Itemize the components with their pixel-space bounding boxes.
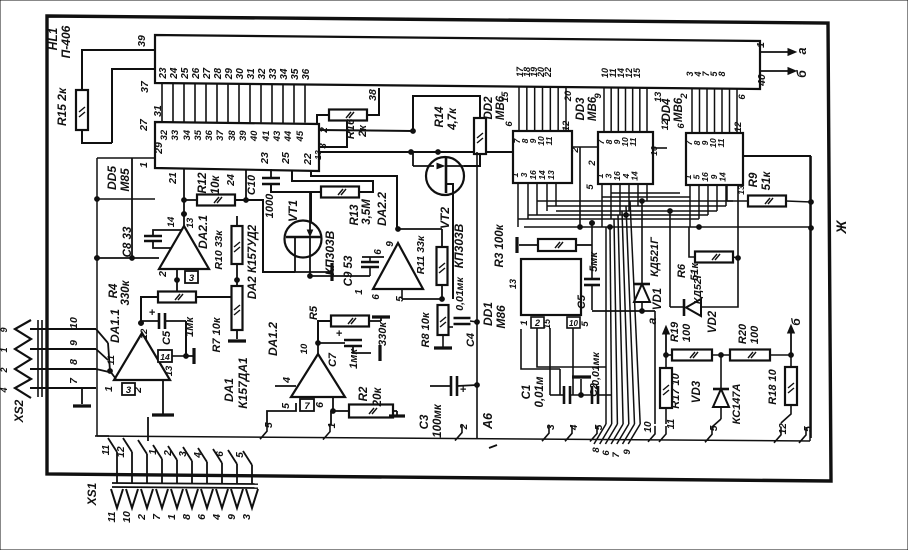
wire R5 left [318,321,331,343]
svg-text:DA2 К157УД2: DA2 К157УД2 [247,224,259,299]
svg-text:5: 5 [709,425,720,431]
wire 5mk top [590,221,595,279]
svg-text:1: 1 [519,320,530,325]
svg-text:HL1: HL1 [46,27,60,50]
capacitor C2 [588,352,602,404]
svg-text:10: 10 [569,319,578,328]
label A6 [481,412,497,448]
label DD5 M85 [105,166,132,192]
svg-text:КД521Г: КД521Г [649,236,661,277]
svg-text:29: 29 [224,68,235,81]
svg-text:R2: R2 [358,386,370,401]
capacitor C9 [343,255,379,286]
svg-text:9: 9 [0,327,9,332]
svg-text:20: 20 [563,90,574,102]
diode VD2 [684,271,719,333]
R5 right up [0,0,1,1]
DD4 inner bottom pins [683,172,727,182]
svg-text:1мк: 1мк [348,348,360,369]
DD2 side labels [500,90,574,131]
board outline left [95,158,100,436]
svg-text:DA1.2: DA1.2 [266,322,280,356]
svg-text:0,01м: 0,01м [534,376,546,407]
display pin numbers DD3 group [600,67,642,78]
svg-text:30: 30 [235,68,246,80]
svg-text:R15 2к: R15 2к [55,87,69,126]
DA1.1 gnd bar [152,380,174,415]
svg-text:4: 4 [211,514,223,521]
bus harness lines [518,193,811,229]
resistor R17 [660,368,682,409]
svg-text:37: 37 [139,80,151,93]
wire DD2-DD3 [572,146,598,148]
resistor R11 [415,235,448,285]
label DD5 pin2 [319,127,330,134]
svg-text:R4: R4 [108,283,120,298]
svg-text:+: + [336,328,343,340]
DD5 top pin numbers 32-45 [159,129,306,142]
svg-text:13: 13 [185,217,196,228]
svg-text:11: 11 [716,138,726,147]
svg-text:24: 24 [169,67,180,80]
bus vertical drops [606,201,640,424]
svg-text:10: 10 [299,343,310,354]
DD4 inner top pins [684,138,726,148]
DD1 pin boxes [508,279,591,329]
wire C10 bottom [271,184,310,192]
resistor R20 [730,323,770,360]
svg-text:С5: С5 [161,330,173,345]
wire R14 top [411,96,480,133]
XS1 bottom pin numbers [106,511,253,523]
svg-text:1: 1 [755,42,767,48]
chamfer 5b [590,424,605,441]
svg-text:7: 7 [304,401,310,412]
svg-text:100: 100 [681,323,693,342]
cap 5mk [576,251,600,310]
svg-text:13: 13 [546,170,556,180]
R7 ground [228,330,246,341]
wire x738 [737,186,739,258]
C4 stub [448,321,477,327]
display pin1 arrow [755,42,809,55]
svg-text:34: 34 [279,68,290,80]
svg-text:VD2: VD2 [707,310,719,333]
board outline top stub [97,157,155,159]
chamfer 5 (DA1 pin5) [260,422,275,439]
svg-text:23: 23 [259,152,271,165]
svg-text:8: 8 [181,514,193,520]
svg-text:43: 43 [272,130,283,142]
XS1 pin chevrons [111,489,258,508]
svg-text:44: 44 [283,130,294,142]
display HL1 box [155,35,760,89]
DD4 top stubs [692,89,737,133]
svg-text:а: а [645,317,659,324]
wire DD3-DD4 [653,147,667,149]
svg-text:3: 3 [546,424,557,430]
svg-text:330к: 330к [120,279,132,305]
svg-text:R17 10: R17 10 [670,372,682,408]
svg-text:МВ6: МВ6 [587,96,599,121]
svg-text:XS2: XS2 [12,399,26,423]
wire R10 [235,216,240,286]
svg-text:С10: С10 [246,174,258,195]
wire DD5 pin21 [182,168,187,226]
wire R6 right [733,256,740,261]
svg-text:27: 27 [138,118,150,132]
DD3 bottom stubs [602,184,647,227]
C3 wires [430,385,477,386]
wire x477 [475,152,480,438]
wire DA1.1 out down [0,0,1,1]
svg-text:6: 6 [314,402,326,408]
svg-text:R13: R13 [349,204,361,226]
XS1 body lines [112,483,258,488]
svg-text:6: 6 [196,514,208,520]
svg-text:9: 9 [622,449,633,455]
DD2 top stubs [519,86,566,131]
svg-text:2: 2 [163,450,174,457]
wire arrow a [645,317,669,355]
svg-text:А6: А6 [481,412,495,430]
svg-text:10: 10 [68,317,80,329]
svg-text:29: 29 [153,142,165,155]
opamp DA1.2 [266,322,345,397]
DD2-DD3 link pins [570,147,598,190]
display pin40 arrow [756,68,809,87]
resistor R8 [420,305,449,347]
DA1.2 pin7 box [300,399,314,412]
C9 wires [362,257,384,276]
svg-text:6: 6 [373,249,384,255]
capacitor C3 [419,376,467,438]
svg-text:22: 22 [543,67,553,78]
XS2 left labels [0,327,9,393]
wire arrow b [788,318,803,355]
svg-text:1мк: 1мк [184,316,196,337]
svg-text:1: 1 [148,449,159,455]
label DD5 pin13 [313,150,323,160]
svg-text:КС147А: КС147А [731,384,743,425]
DD3 inner top pins [596,137,638,147]
wire DD4 pin2 right [743,155,811,157]
capacitor C8 [122,226,162,257]
svg-text:11: 11 [666,418,677,429]
opamp DA2.2 [373,243,423,289]
svg-text:R3 100к: R3 100к [494,223,506,267]
svg-text:38: 38 [367,89,379,101]
svg-text:11: 11 [106,511,118,522]
svg-text:2: 2 [534,318,540,328]
DD3 top stubs [604,87,647,132]
IC DD5 box [155,122,319,171]
wire VD1 bottom [592,308,655,424]
svg-text:13: 13 [736,185,746,195]
svg-text:DD2: DD2 [483,96,495,120]
label DD2 MV6 [483,95,507,120]
svg-text:R8 10к: R8 10к [420,311,432,347]
svg-text:0,01мк: 0,01мк [590,352,602,386]
svg-text:DA2.2: DA2.2 [375,192,389,226]
svg-text:40: 40 [249,130,260,142]
DD2 bottom stubs [518,183,556,227]
transistor VT1 [285,192,338,276]
svg-text:R10 33к: R10 33к [213,230,225,270]
svg-text:7: 7 [611,452,622,458]
chamfer 12 [774,423,789,443]
svg-text:5мк: 5мк [588,251,600,272]
wire R4 right [196,296,237,298]
wire R12 right [235,200,295,272]
label DA2.2 [375,192,389,226]
svg-text:34: 34 [182,129,193,140]
svg-text:12: 12 [660,119,671,130]
wire pin15 down [549,328,551,395]
svg-text:2: 2 [136,514,148,521]
svg-text:DD5: DD5 [105,166,119,190]
IC DD3 box [598,132,653,184]
capacitor C5a [141,307,196,356]
svg-text:51к: 51к [689,262,701,281]
svg-text:R19: R19 [669,321,681,342]
DD4 bottom stubs [690,185,726,227]
svg-text:31: 31 [246,68,257,80]
resistor R4 [108,279,196,305]
svg-text:1: 1 [138,162,150,168]
DD1 wires [521,328,606,395]
XS1 top wire numbers [101,444,246,458]
svg-text:DA1: DA1 [222,378,236,402]
IC DD2 box [513,131,572,183]
resistor R16 [329,110,369,140]
svg-text:6: 6 [215,451,226,457]
svg-text:+: + [149,307,156,319]
svg-text:КП303В: КП303В [323,230,337,275]
svg-text:38: 38 [227,130,238,141]
resistor R14 [434,106,486,154]
svg-text:С7: С7 [327,352,339,367]
DA1.1 pin labels [103,328,175,394]
chamfer 3 [542,424,557,441]
board outline bottom [97,436,810,441]
svg-text:VD3: VD3 [691,380,703,403]
svg-text:С4: С4 [465,333,477,347]
svg-text:2: 2 [459,423,470,430]
svg-text:2: 2 [679,93,690,100]
svg-text:9: 9 [68,340,80,346]
XS1 riser 11 [0,0,1,1]
resistor R12 [197,172,235,206]
svg-text:2: 2 [0,367,9,373]
svg-text:35: 35 [193,129,204,140]
svg-text:R14: R14 [434,106,446,128]
svg-text:32: 32 [159,129,170,140]
svg-text:8: 8 [68,359,80,365]
DA1.1 pin14 box [158,350,172,362]
svg-text:2: 2 [587,160,598,167]
chamfer 5d [799,426,814,443]
svg-text:DD3: DD3 [575,97,587,121]
wire x811 [809,156,814,438]
svg-text:9: 9 [593,93,604,99]
label DA1 [222,357,250,409]
label XS1 [85,482,99,506]
resistor R9 [736,171,786,207]
svg-text:12: 12 [116,446,127,458]
wire DD5 pin22 to DA2.2 out [311,171,397,229]
wire R11 bottom [402,285,444,301]
svg-text:26: 26 [191,67,202,80]
chamfer 10 [643,421,655,442]
wire R4 left [139,297,158,325]
label DD4 MV6 [661,97,685,122]
svg-text:3: 3 [189,273,195,284]
svg-text:С3: С3 [419,414,431,429]
svg-text:13: 13 [164,365,175,376]
IC DD4 box [686,133,743,185]
wire HL1 pin39 [82,35,155,90]
capacitor C10 [246,169,280,218]
svg-text:5: 5 [803,426,814,432]
XS2 wire jogs [96,329,116,379]
C1C2 wires [550,393,612,398]
fan labels [591,447,633,458]
svg-text:39: 39 [136,35,148,47]
diode VD1 [634,236,664,310]
svg-text:5: 5 [580,321,591,327]
svg-text:DA2.1: DA2.1 [196,215,210,249]
svg-text:2: 2 [157,271,169,278]
wire DA2.1 in [95,158,159,260]
svg-text:10: 10 [121,511,133,523]
XS1 wire jogs [108,438,252,484]
display pin numbers 23-36 [158,67,312,80]
svg-text:3,5М: 3,5М [361,199,373,225]
labels DD5 bottom pins [167,152,314,187]
svg-text:5: 5 [280,403,292,409]
wire DA1.1 out up [139,321,144,326]
wire display pin38 [367,88,379,115]
svg-text:4: 4 [0,387,9,393]
display pin numbers DD4 group [685,71,727,78]
svg-text:35: 35 [290,68,301,80]
capacitor C4 [454,277,478,347]
chamfer 4 [565,424,580,441]
svg-text:36: 36 [301,68,312,80]
svg-text:12: 12 [778,423,789,435]
wire R12 left [182,198,197,203]
C4 wires [0,0,1,1]
chamfer fan bus [594,424,640,444]
svg-text:14: 14 [717,172,727,182]
R3 left bar [517,237,538,253]
svg-text:б: б [789,318,803,326]
svg-text:15: 15 [632,67,642,78]
wire DD5 pin13 to DD2 [319,150,513,155]
board outline right [809,156,811,441]
svg-text:13: 13 [653,91,664,102]
svg-text:а: а [795,47,809,54]
R8 ground [434,335,452,348]
svg-text:28: 28 [213,68,224,81]
wire DA2.1 to R4 [175,269,180,292]
wire DD5 pin24 [244,169,249,202]
svg-text:VD1: VD1 [652,288,664,310]
wire R19 left [666,354,672,356]
label XS2 [12,399,26,423]
DA2.1 pin labels [157,216,196,278]
wire R9 [727,185,811,202]
svg-text:39: 39 [238,130,249,141]
svg-text:XS1: XS1 [85,482,99,506]
IC DD1 box [521,259,581,315]
svg-text:DD1: DD1 [481,302,495,326]
svg-text:330к: 330к [377,321,389,346]
capacitor C7 [327,328,362,369]
label Zh [833,219,849,234]
svg-text:100: 100 [749,325,761,344]
svg-text:С9 53: С9 53 [343,255,355,286]
svg-text:М85: М85 [118,168,132,192]
resistor R6 [676,252,733,281]
svg-text:DA1.1: DA1.1 [108,309,122,343]
DA2.1 pin3 box [185,271,198,284]
svg-text:12: 12 [139,328,150,339]
resistor R3 [494,223,576,267]
svg-text:Ж: Ж [833,219,849,234]
wire C7 [318,343,380,361]
svg-text:R20: R20 [737,323,749,344]
wire VD1 top [641,201,643,284]
wire R19-R20 [712,353,730,358]
svg-text:5: 5 [235,452,246,458]
label DD5 pin27 [138,118,150,132]
label DD5 pin29 [153,142,165,155]
svg-text:6: 6 [371,294,382,300]
wire pin14 [172,348,194,364]
wire DA1 pin5 [267,403,296,424]
svg-text:0,01мк: 0,01мк [454,277,466,311]
C1C2 ground [572,377,591,395]
label DD5 pin3 [318,143,329,149]
svg-text:КП303В: КП303В [452,223,466,268]
resistor R15 [55,87,88,130]
svg-text:45: 45 [295,130,306,142]
svg-text:R18 10: R18 10 [767,368,779,404]
svg-text:11: 11 [628,137,638,146]
svg-text:1: 1 [166,514,178,520]
svg-text:3: 3 [178,451,189,457]
wire R2 [331,397,405,425]
svg-text:100мк: 100мк [432,403,444,438]
svg-text:21: 21 [167,172,179,185]
svg-text:9: 9 [226,514,238,520]
XS2 pin labels [68,317,80,384]
svg-text:К157ДА1: К157ДА1 [236,357,250,409]
svg-text:R6: R6 [676,263,688,278]
svg-text:М86: М86 [494,305,508,329]
DD3-DD4 link [649,146,659,156]
svg-text:25: 25 [180,67,191,80]
VD2 wires [670,258,738,307]
svg-text:36: 36 [204,129,215,140]
wire R14 bottom [464,154,480,166]
DD2 inner bottom pins [510,170,556,180]
svg-text:1: 1 [103,386,115,392]
C8 wires [153,230,181,248]
resistor R13 [321,187,373,226]
